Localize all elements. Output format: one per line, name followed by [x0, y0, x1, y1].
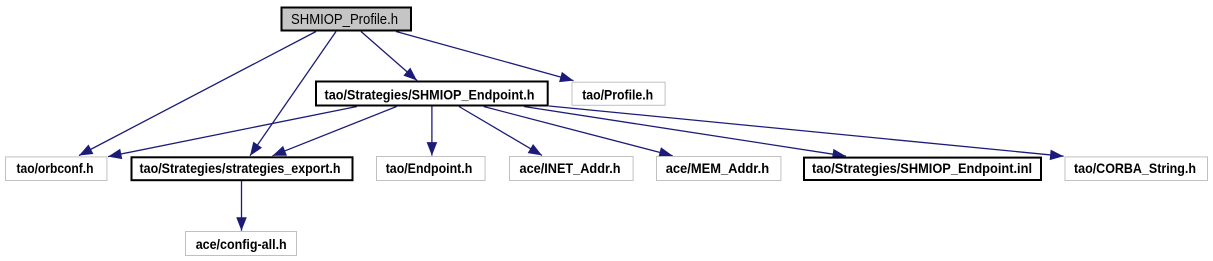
- wire tao/Strategies/SHMIOP_Endpoint.h -> tao/Strategies/strategies_export.h: [273, 107, 397, 156]
- svg-text:tao/CORBA_String.h: tao/CORBA_String.h: [1074, 160, 1196, 176]
- wire SHMIOP_Profile.h -> tao/Profile.h: [396, 32, 574, 81]
- svg-text:tao/Strategies/SHMIOP_Endpoint: tao/Strategies/SHMIOP_Endpoint.h: [325, 86, 535, 102]
- wire tao/Strategies/SHMIOP_Endpoint.h -> ace/INET_Addr.h: [459, 107, 542, 156]
- node tao/Profile.h: [572, 82, 665, 105]
- svg-text:tao/Endpoint.h: tao/Endpoint.h: [386, 160, 473, 176]
- wire tao/Strategies/SHMIOP_Endpoint.h -> tao/Endpoint.h: [431, 107, 433, 156]
- wire tao/Strategies/SHMIOP_Endpoint.h -> tao/orbconf.h: [108, 107, 357, 157]
- node ace/MEM_Addr.h: [657, 157, 781, 181]
- node tao/CORBA_String.h: [1065, 157, 1208, 181]
- node tao/orbconf.h: [6, 157, 107, 181]
- node tao/Strategies/SHMIOP_Endpoint.h: [316, 82, 548, 106]
- svg-text:ace/config-all.h: ace/config-all.h: [196, 236, 287, 252]
- svg-text:ace/MEM_Addr.h: ace/MEM_Addr.h: [666, 160, 769, 176]
- node tao/Strategies/SHMIOP_Endpoint.inl: [804, 158, 1041, 180]
- wire tao/Strategies/strategies_export.h -> ace/config-all.h: [241, 181, 243, 231]
- svg-text:tao/Strategies/SHMIOP_Endpoint: tao/Strategies/SHMIOP_Endpoint.inl: [812, 160, 1032, 176]
- wire SHMIOP_Profile.h -> tao/Strategies/SHMIOP_Endpoint.h: [361, 32, 417, 81]
- wire tao/Strategies/SHMIOP_Endpoint.h -> tao/Strategies/SHMIOP_Endpoint.inl: [524, 107, 846, 157]
- svg-text:ace/INET_Addr.h: ace/INET_Addr.h: [520, 160, 621, 176]
- node ace/config-all.h: [186, 232, 297, 256]
- node tao/Endpoint.h: [377, 157, 486, 181]
- svg-text:tao/orbconf.h: tao/orbconf.h: [17, 160, 94, 176]
- wire tao/Strategies/SHMIOP_Endpoint.h -> tao/CORBA_String.h: [549, 106, 1064, 156]
- wire SHMIOP_Profile.h -> tao/orbconf.h: [79, 32, 316, 156]
- node tao/Strategies/strategies_export.h: [132, 157, 353, 180]
- wire tao/Strategies/SHMIOP_Endpoint.h -> ace/MEM_Addr.h: [484, 107, 673, 156]
- svg-text:tao/Strategies/strategies_expo: tao/Strategies/strategies_export.h: [140, 160, 341, 176]
- node SHMIOP_Profile.h: [282, 8, 412, 31]
- svg-text:tao/Profile.h: tao/Profile.h: [582, 86, 653, 102]
- wire SHMIOP_Profile.h -> tao/Strategies/strategies_export.h: [250, 32, 336, 156]
- node ace/INET_Addr.h: [510, 157, 634, 181]
- svg-text:SHMIOP_Profile.h: SHMIOP_Profile.h: [291, 11, 398, 28]
